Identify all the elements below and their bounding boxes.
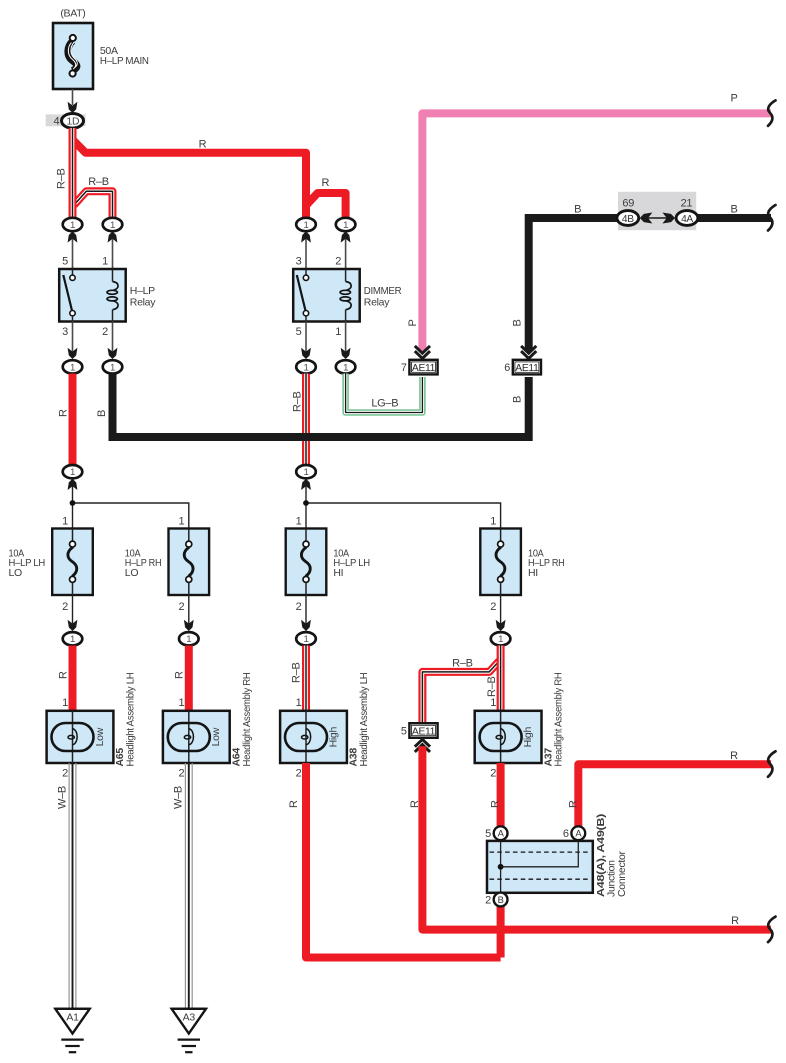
- connector 1 (below fuse RH HI): [491, 632, 511, 645]
- connector 1 (below H-LP relay pin 2): [103, 360, 123, 373]
- svg-text:R: R: [568, 800, 580, 808]
- fuse 50A H-LP MAIN (BAT): [53, 8, 149, 90]
- ground A3: [172, 1009, 206, 1052]
- svg-text:1: 1: [62, 516, 68, 528]
- connector 5 AE11: [401, 723, 438, 738]
- svg-text:3: 3: [296, 256, 302, 268]
- connector 1 (dimmer relay pin 2): [336, 218, 356, 231]
- connector 1 (below fuse LH LO): [63, 632, 83, 645]
- svg-text:1: 1: [178, 697, 184, 709]
- svg-text:Connector: Connector: [616, 850, 628, 897]
- connector 1 (below fuse RH LO): [179, 632, 199, 645]
- wire W-B (A65 to ground A1): [56, 763, 76, 1009]
- wire R to A64: [174, 646, 189, 712]
- junction connector pin 6A: [563, 826, 585, 840]
- wire R (AE11 pin 5 to other page): [409, 746, 771, 929]
- svg-text:2: 2: [178, 768, 184, 780]
- junction connector pin 5A: [485, 826, 507, 840]
- svg-text:69: 69: [622, 198, 634, 210]
- svg-text:LO: LO: [125, 567, 139, 579]
- wire junction to LO fuses: [68, 479, 189, 529]
- svg-text:H–LP MAIN: H–LP MAIN: [100, 55, 149, 67]
- connector 1 (H-LP relay pin 1): [103, 218, 123, 231]
- svg-text:B: B: [96, 410, 108, 417]
- svg-text:AE11: AE11: [412, 363, 436, 374]
- junction connector pin 2B: [485, 893, 507, 907]
- wire R-B (dimmer relay to HI fuses): [292, 374, 306, 465]
- svg-text:4: 4: [53, 115, 59, 127]
- svg-text:2: 2: [490, 601, 496, 613]
- svg-text:2: 2: [490, 768, 496, 780]
- svg-text:B: B: [498, 894, 504, 905]
- svg-text:1: 1: [70, 467, 75, 478]
- page break R wire upper: [768, 751, 776, 777]
- svg-text:AE11: AE11: [515, 363, 539, 374]
- svg-text:1: 1: [303, 634, 308, 645]
- wire junction to HI fuses: [301, 479, 501, 529]
- svg-text:21: 21: [681, 198, 693, 210]
- junction connector A48(A), A49(B): [487, 814, 628, 897]
- svg-text:A: A: [498, 828, 505, 839]
- connector 1 (below fuse LH HI): [296, 632, 316, 645]
- svg-text:5: 5: [485, 828, 491, 840]
- svg-text:P: P: [407, 319, 419, 326]
- relay DIMMER: [293, 256, 402, 338]
- pin wires into relay tops: [68, 231, 351, 269]
- svg-text:LG–B: LG–B: [371, 397, 398, 409]
- svg-text:4B: 4B: [622, 214, 634, 225]
- connector 69 4B / 21 4A: [617, 192, 698, 230]
- page break B wire: [768, 205, 776, 231]
- svg-text:2: 2: [296, 768, 302, 780]
- connector 1 (below H-LP relay pin 3): [63, 360, 83, 373]
- svg-text:B: B: [574, 204, 581, 216]
- svg-text:A: A: [575, 828, 582, 839]
- svg-text:1: 1: [490, 516, 496, 528]
- svg-text:1: 1: [343, 220, 348, 231]
- pin wires below fuses: [68, 595, 506, 631]
- svg-text:1: 1: [296, 516, 302, 528]
- svg-text:Low: Low: [210, 727, 222, 746]
- svg-text:2: 2: [62, 601, 68, 613]
- wire R main feed (1D to relays): [74, 139, 346, 219]
- svg-text:R–B: R–B: [55, 169, 67, 190]
- connector 7 AE11: [401, 360, 438, 375]
- svg-text:1: 1: [62, 697, 68, 709]
- svg-text:Headlight Assembly RH: Headlight Assembly RH: [241, 673, 253, 767]
- svg-text:A1: A1: [66, 1011, 79, 1023]
- headlight A65 (Low LH): [47, 673, 137, 780]
- svg-text:R: R: [490, 800, 502, 808]
- svg-text:Relay: Relay: [364, 296, 390, 308]
- wire B (relay pin 2 / AE11 pin 6 / body connector 4B): [96, 204, 771, 438]
- arrow into AE11 pin 7: [415, 346, 430, 359]
- wire R-B (1D to H-LP relay pins): [55, 128, 112, 218]
- svg-text:R: R: [409, 800, 421, 808]
- svg-text:AE11: AE11: [412, 726, 436, 737]
- wire P (from other page to AE11 pin 7): [407, 93, 771, 352]
- page break P wire: [768, 100, 776, 126]
- wire R (junction connector 2B down): [497, 906, 505, 957]
- svg-text:High: High: [522, 727, 534, 748]
- relay H-LP: [59, 256, 156, 338]
- svg-text:R: R: [199, 139, 207, 151]
- svg-text:R: R: [288, 800, 300, 808]
- svg-text:Headlight Assembly LH: Headlight Assembly LH: [358, 673, 370, 767]
- svg-text:R: R: [57, 671, 69, 679]
- svg-text:5: 5: [62, 256, 68, 268]
- svg-text:2: 2: [178, 601, 184, 613]
- svg-text:R–B: R–B: [292, 392, 304, 413]
- svg-text:W–B: W–B: [56, 786, 68, 809]
- svg-text:1: 1: [303, 467, 308, 478]
- svg-text:1: 1: [102, 256, 108, 268]
- svg-text:1: 1: [343, 362, 348, 373]
- svg-text:R: R: [731, 915, 739, 927]
- svg-text:1: 1: [70, 362, 75, 373]
- svg-text:1: 1: [303, 362, 308, 373]
- connector 4 1D: [46, 114, 86, 129]
- svg-text:A3: A3: [183, 1011, 196, 1023]
- fuse 10A H-LP LH LO: [9, 516, 93, 614]
- connector 6 AE11: [504, 360, 541, 375]
- svg-text:6: 6: [563, 828, 569, 840]
- svg-text:2: 2: [485, 894, 491, 906]
- svg-text:3: 3: [62, 326, 68, 338]
- connector 1 (above H-LP LO fuses): [63, 465, 83, 478]
- headlight A64 (Low RH): [163, 673, 253, 780]
- svg-text:W–B: W–B: [172, 786, 184, 809]
- svg-text:R–B: R–B: [486, 677, 498, 698]
- headlight A37 (High RH): [475, 673, 565, 780]
- connector 1 (below dimmer relay pin 1): [336, 360, 356, 373]
- connector 1 (dimmer relay pin 3): [296, 218, 316, 231]
- svg-text:R: R: [57, 409, 69, 417]
- svg-text:1: 1: [498, 634, 503, 645]
- svg-text:5: 5: [401, 726, 407, 738]
- svg-text:1: 1: [303, 220, 308, 231]
- svg-text:1: 1: [335, 326, 341, 338]
- svg-text:P: P: [730, 93, 737, 105]
- wire R (relay to headlamp fuses): [57, 374, 72, 465]
- svg-text:1D: 1D: [67, 116, 80, 127]
- svg-text:HI: HI: [528, 567, 538, 579]
- svg-text:Relay: Relay: [130, 296, 156, 308]
- svg-text:1: 1: [110, 220, 115, 231]
- svg-text:HI: HI: [333, 567, 343, 579]
- svg-text:(BAT): (BAT): [60, 8, 85, 20]
- svg-text:2: 2: [102, 326, 108, 338]
- svg-text:R–B: R–B: [452, 658, 473, 670]
- svg-text:5: 5: [296, 326, 302, 338]
- svg-text:2: 2: [62, 768, 68, 780]
- svg-text:R: R: [174, 671, 186, 679]
- svg-text:Headlight Assembly RH: Headlight Assembly RH: [553, 673, 565, 767]
- svg-text:B: B: [512, 396, 524, 403]
- svg-text:2: 2: [296, 601, 302, 613]
- fuse 10A H-LP LH HI: [286, 516, 370, 614]
- fuse 10A H-LP RH LO: [125, 516, 209, 614]
- ground A1: [55, 1009, 89, 1052]
- connector 1 (H-LP relay pin 5): [63, 218, 83, 231]
- svg-text:R–B: R–B: [88, 176, 109, 188]
- wire R (other page to junction connector 6A): [568, 750, 772, 827]
- svg-text:2: 2: [335, 256, 341, 268]
- svg-text:1: 1: [178, 516, 184, 528]
- wire W-B (A64 to ground A3): [172, 763, 192, 1009]
- wire from fuse to connector 1D: [68, 89, 78, 113]
- connector 1 (above H-LP HI fuses): [296, 465, 316, 478]
- page break R wire lower: [768, 917, 776, 943]
- connector 1 (below dimmer relay pin 5): [296, 360, 316, 373]
- svg-text:LO: LO: [9, 567, 23, 579]
- headlight A38 (High LH): [280, 673, 370, 780]
- svg-text:1: 1: [296, 697, 302, 709]
- arrow into AE11 pin 6: [521, 346, 536, 359]
- svg-text:1: 1: [490, 697, 496, 709]
- svg-text:R–B: R–B: [291, 663, 303, 684]
- wire R to A65: [57, 646, 72, 712]
- svg-text:B: B: [730, 204, 737, 216]
- svg-text:Headlight Assembly LH: Headlight Assembly LH: [125, 673, 137, 767]
- svg-text:7: 7: [401, 362, 407, 374]
- svg-text:6: 6: [504, 362, 510, 374]
- wire LG-B (dimmer coil to AE11 pin 7): [346, 374, 423, 413]
- wire R (A37 to junction connector 5A): [490, 763, 502, 826]
- arrow into AE11 pin 5: [415, 739, 430, 752]
- svg-text:B: B: [512, 319, 524, 326]
- wire R-B to A38: [291, 646, 306, 712]
- svg-text:1: 1: [70, 220, 75, 231]
- svg-text:1: 1: [110, 362, 115, 373]
- svg-text:4A: 4A: [681, 214, 693, 225]
- svg-text:1: 1: [70, 634, 75, 645]
- wire R-B to A37 and AE11 pin 5: [422, 646, 500, 724]
- svg-text:1: 1: [186, 634, 191, 645]
- svg-text:High: High: [327, 727, 339, 748]
- wire R (A38 to junction connector 2B): [288, 763, 501, 958]
- svg-text:R: R: [321, 177, 329, 189]
- svg-text:R: R: [730, 750, 738, 762]
- pin wires out of relay bottoms: [68, 322, 351, 360]
- svg-text:Low: Low: [94, 727, 106, 746]
- fuse 10A H-LP RH HI: [480, 516, 564, 614]
